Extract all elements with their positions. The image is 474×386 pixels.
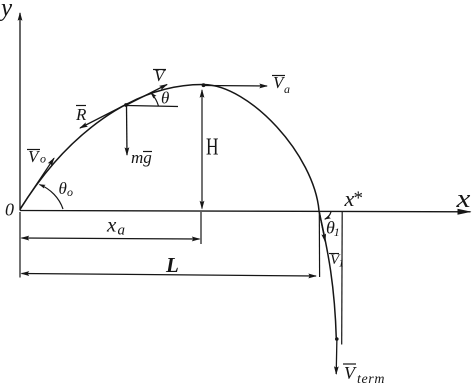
point on ascending branch (node): [124, 103, 128, 107]
svg-text:1: 1: [334, 225, 340, 239]
svg-text:o: o: [67, 185, 73, 199]
svg-text:*: *: [354, 188, 364, 209]
svg-text:x: x: [106, 213, 117, 237]
angle arc theta: [151, 93, 159, 106]
svg-text:o: o: [40, 152, 46, 166]
svg-text:V: V: [344, 363, 357, 383]
svg-text:y: y: [0, 0, 13, 22]
svg-text:a: a: [118, 223, 126, 239]
svg-text:θ: θ: [161, 89, 169, 108]
label Va: [272, 73, 290, 96]
y-axis: [19, 13, 21, 211]
x-axis: [20, 211, 471, 212]
height dimension H (double arrow): [201, 90, 203, 209]
label theta1: [326, 218, 340, 240]
gravity vector mg: [126, 106, 129, 155]
svg-text:x: x: [455, 184, 470, 213]
svg-text:term: term: [357, 372, 385, 386]
extension line below apex: [200, 212, 202, 244]
impact velocity vector V1: [319, 212, 325, 242]
label theta0: [59, 179, 74, 199]
label V0: [27, 147, 46, 166]
label V1: [329, 252, 344, 270]
svg-text:mg: mg: [131, 148, 152, 167]
label R: [75, 105, 87, 124]
dimension Xa (double arrow): [22, 238, 200, 239]
svg-text:R: R: [75, 105, 87, 124]
apex point (node): [202, 83, 206, 87]
extension line below impact point: [318, 212, 320, 277]
label X*: [344, 186, 364, 211]
svg-text:H: H: [206, 133, 218, 161]
point on terminal branch (node): [335, 337, 339, 341]
trajectory curve: [20, 84, 336, 339]
vertical line at X*: [341, 211, 344, 345]
svg-text:a: a: [284, 82, 290, 96]
vector V0 (initial velocity): [20, 158, 54, 209]
svg-text:V: V: [154, 66, 167, 85]
dimension L (double arrow): [22, 274, 317, 277]
apex velocity vector Va: [204, 85, 267, 88]
svg-text:1: 1: [339, 258, 345, 270]
angle arc theta1: [325, 212, 331, 219]
velocity vector V at point: [127, 85, 168, 106]
horizontal reference line at point: [127, 106, 179, 107]
svg-text:L: L: [165, 253, 179, 277]
angle arc theta0: [40, 185, 64, 210]
label V: [153, 66, 167, 85]
svg-text:θ: θ: [59, 179, 67, 198]
extension line below origin: [19, 212, 21, 278]
svg-text:0: 0: [5, 200, 14, 220]
label Xa: [106, 213, 125, 239]
label Vterm: [343, 363, 385, 386]
label mg: [131, 148, 152, 167]
drag force vector R: [80, 106, 124, 129]
terminal velocity vector Vterm: [335, 339, 338, 374]
